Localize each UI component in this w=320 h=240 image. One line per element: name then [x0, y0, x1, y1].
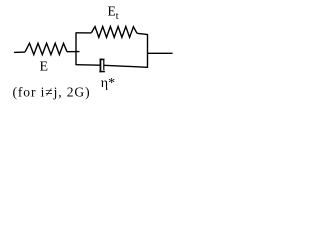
spring Et — [91, 27, 137, 38]
svg-text:(for i≠j, 2G): (for i≠j, 2G) — [13, 85, 91, 100]
wire output lead — [148, 52, 173, 54]
wire top branch left — [76, 32, 91, 34]
spring E — [25, 43, 67, 54]
wire dashpot rod to node B — [104, 65, 148, 67]
dashpot cylinder top flange — [100, 59, 105, 61]
node A left vertical — [75, 32, 77, 65]
dashpot cylinder bottom flange — [99, 71, 105, 73]
node B right vertical — [147, 34, 149, 68]
svg-text:η*: η* — [101, 76, 115, 91]
dashpot cylinder wall — [100, 59, 102, 73]
wire top branch right — [137, 33, 148, 34]
svg-text:E: E — [40, 59, 49, 74]
wire left lead — [14, 51, 25, 53]
wire bottom branch left — [76, 64, 100, 67]
dashpot piston plate — [103, 60, 104, 71]
wire node A stub — [67, 51, 80, 53]
